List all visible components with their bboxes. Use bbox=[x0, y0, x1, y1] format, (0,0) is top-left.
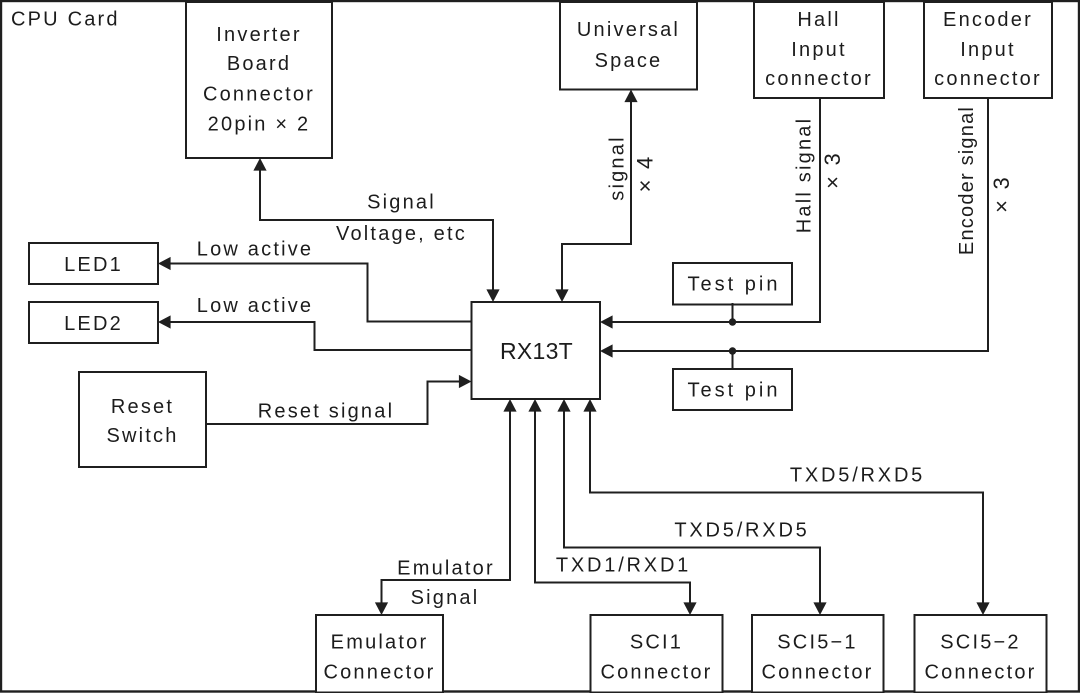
svg-text:LED2: LED2 bbox=[64, 313, 123, 335]
svg-text:Hall: Hall bbox=[797, 9, 840, 31]
wire Universal Space to RX13T (signal x4) bbox=[555, 90, 637, 303]
box Emulator Connector bbox=[316, 615, 443, 693]
svg-text:Input: Input bbox=[960, 39, 1015, 61]
svg-text:Reset: Reset bbox=[111, 396, 174, 418]
box SCI1 Connector bbox=[591, 615, 723, 693]
svg-text:signal: signal bbox=[607, 135, 629, 200]
box SCI5-2 Connector bbox=[915, 615, 1047, 693]
svg-text:× 4: × 4 bbox=[633, 155, 658, 193]
svg-text:Signal: Signal bbox=[411, 587, 480, 609]
wire Hall Input connector to RX13T (Hall signal x3) bbox=[600, 98, 820, 329]
svg-text:Low active: Low active bbox=[197, 239, 314, 261]
svg-text:Connector: Connector bbox=[203, 84, 315, 106]
box Reset Switch bbox=[79, 372, 206, 467]
svg-text:SCI5−2: SCI5−2 bbox=[940, 632, 1020, 654]
svg-text:Space: Space bbox=[595, 50, 663, 72]
svg-text:TXD5/RXD5: TXD5/RXD5 bbox=[674, 520, 809, 542]
wire Encoder Input connector to RX13T (Encoder signal x3) bbox=[600, 98, 988, 358]
wire RX13T to Emulator Connector (Emulator Signal) bbox=[375, 399, 517, 615]
svg-text:Voltage, etc: Voltage, etc bbox=[336, 223, 467, 245]
svg-text:Reset signal: Reset signal bbox=[258, 401, 394, 423]
box Test pin 2 bbox=[673, 369, 792, 410]
svg-text:RX13T: RX13T bbox=[500, 338, 573, 364]
svg-text:Connector: Connector bbox=[323, 662, 435, 684]
svg-text:Encoder: Encoder bbox=[943, 9, 1033, 31]
svg-text:CPU Card: CPU Card bbox=[11, 9, 120, 31]
svg-text:× 3: × 3 bbox=[820, 151, 845, 189]
svg-text:LED1: LED1 bbox=[64, 254, 123, 276]
svg-text:Low active: Low active bbox=[197, 295, 314, 317]
svg-text:Inverter: Inverter bbox=[216, 24, 301, 46]
stub Test pin 2 to Encoder wire with junction bbox=[729, 347, 736, 369]
svg-text:SCI5−1: SCI5−1 bbox=[777, 632, 857, 654]
svg-text:Emulator: Emulator bbox=[397, 558, 495, 580]
svg-text:Hall signal: Hall signal bbox=[794, 117, 816, 233]
svg-text:Emulator: Emulator bbox=[331, 632, 429, 654]
svg-text:Board: Board bbox=[227, 53, 291, 75]
svg-text:Connector: Connector bbox=[924, 662, 1036, 684]
svg-text:Encoder signal: Encoder signal bbox=[956, 106, 978, 255]
svg-text:Universal: Universal bbox=[577, 19, 680, 41]
box LED1 bbox=[29, 243, 158, 284]
box Universal Space bbox=[560, 2, 697, 90]
svg-text:20pin × 2: 20pin × 2 bbox=[208, 114, 311, 136]
svg-text:Test pin: Test pin bbox=[688, 380, 781, 402]
box Encoder Input connector bbox=[924, 2, 1052, 98]
box Test pin 1 bbox=[673, 263, 792, 305]
svg-text:TXD1/RXD1: TXD1/RXD1 bbox=[556, 555, 691, 577]
svg-text:Signal: Signal bbox=[367, 192, 436, 214]
svg-text:SCI1: SCI1 bbox=[630, 632, 683, 654]
svg-text:TXD5/RXD5: TXD5/RXD5 bbox=[790, 465, 925, 487]
wire Reset Switch to RX13T (Reset signal) bbox=[206, 375, 472, 424]
svg-text:Switch: Switch bbox=[106, 425, 178, 447]
box SCI5-1 Connector bbox=[752, 615, 884, 693]
svg-text:Connector: Connector bbox=[761, 662, 873, 684]
svg-text:Test pin: Test pin bbox=[688, 274, 781, 296]
box RX13T MCU bbox=[472, 302, 601, 399]
wire RX13T to SCI1 Connector (TXD1/RXD1) bbox=[528, 399, 696, 615]
wire RX13T to SCI5-1 Connector (TXD5/RXD5) bbox=[557, 399, 826, 615]
box Hall Input connector bbox=[754, 2, 884, 98]
svg-text:connector: connector bbox=[934, 68, 1042, 90]
wire Inverter to RX13T (Signal Voltage etc) bbox=[253, 158, 499, 302]
box Inverter Board Connector 20pin x2 bbox=[186, 2, 332, 158]
box LED2 bbox=[29, 302, 158, 343]
wire RX13T to LED2 (Low active) bbox=[158, 315, 472, 350]
svg-text:Input: Input bbox=[791, 39, 846, 61]
stub Test pin 1 to Hall wire with junction bbox=[729, 303, 736, 326]
svg-text:connector: connector bbox=[765, 68, 873, 90]
svg-text:Connector: Connector bbox=[600, 662, 712, 684]
svg-text:× 3: × 3 bbox=[989, 175, 1014, 213]
wire RX13T to LED1 (Low active) bbox=[158, 257, 472, 322]
wire RX13T to SCI5-2 Connector (TXD5/RXD5) bbox=[583, 399, 989, 615]
